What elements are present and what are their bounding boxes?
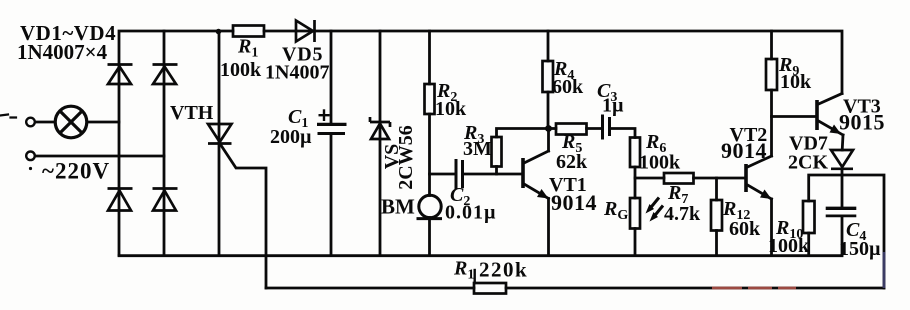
svg-text:1µ: 1µ [602,95,624,117]
svg-text:3M: 3M [463,138,492,160]
svg-text:100k: 100k [220,59,262,81]
svg-text:60k: 60k [552,76,584,98]
svg-text:10k: 10k [435,98,467,120]
svg-text:10k: 10k [780,71,812,93]
svg-text:100k: 100k [768,235,810,257]
svg-text:100k: 100k [639,152,681,174]
svg-text:0.01µ: 0.01µ [445,202,497,224]
svg-text:220k: 220k [479,258,528,282]
svg-text:VTH: VTH [170,102,214,124]
svg-text:2CK: 2CK [788,152,828,174]
svg-text:1N4007: 1N4007 [265,62,329,84]
svg-text:9014: 9014 [721,138,767,163]
svg-text:200µ: 200µ [270,126,312,148]
svg-text:2CW56: 2CW56 [395,125,417,189]
svg-text:BM: BM [381,195,415,219]
svg-text:9015: 9015 [839,110,885,135]
svg-text:4.7k: 4.7k [664,203,701,225]
svg-text:~220V: ~220V [42,158,110,183]
svg-text:60k: 60k [729,218,761,240]
svg-text:9014: 9014 [551,190,597,215]
svg-text:62k: 62k [556,151,588,173]
svg-text:150µ: 150µ [839,238,881,260]
svg-text:1N4007×4: 1N4007×4 [17,40,108,64]
